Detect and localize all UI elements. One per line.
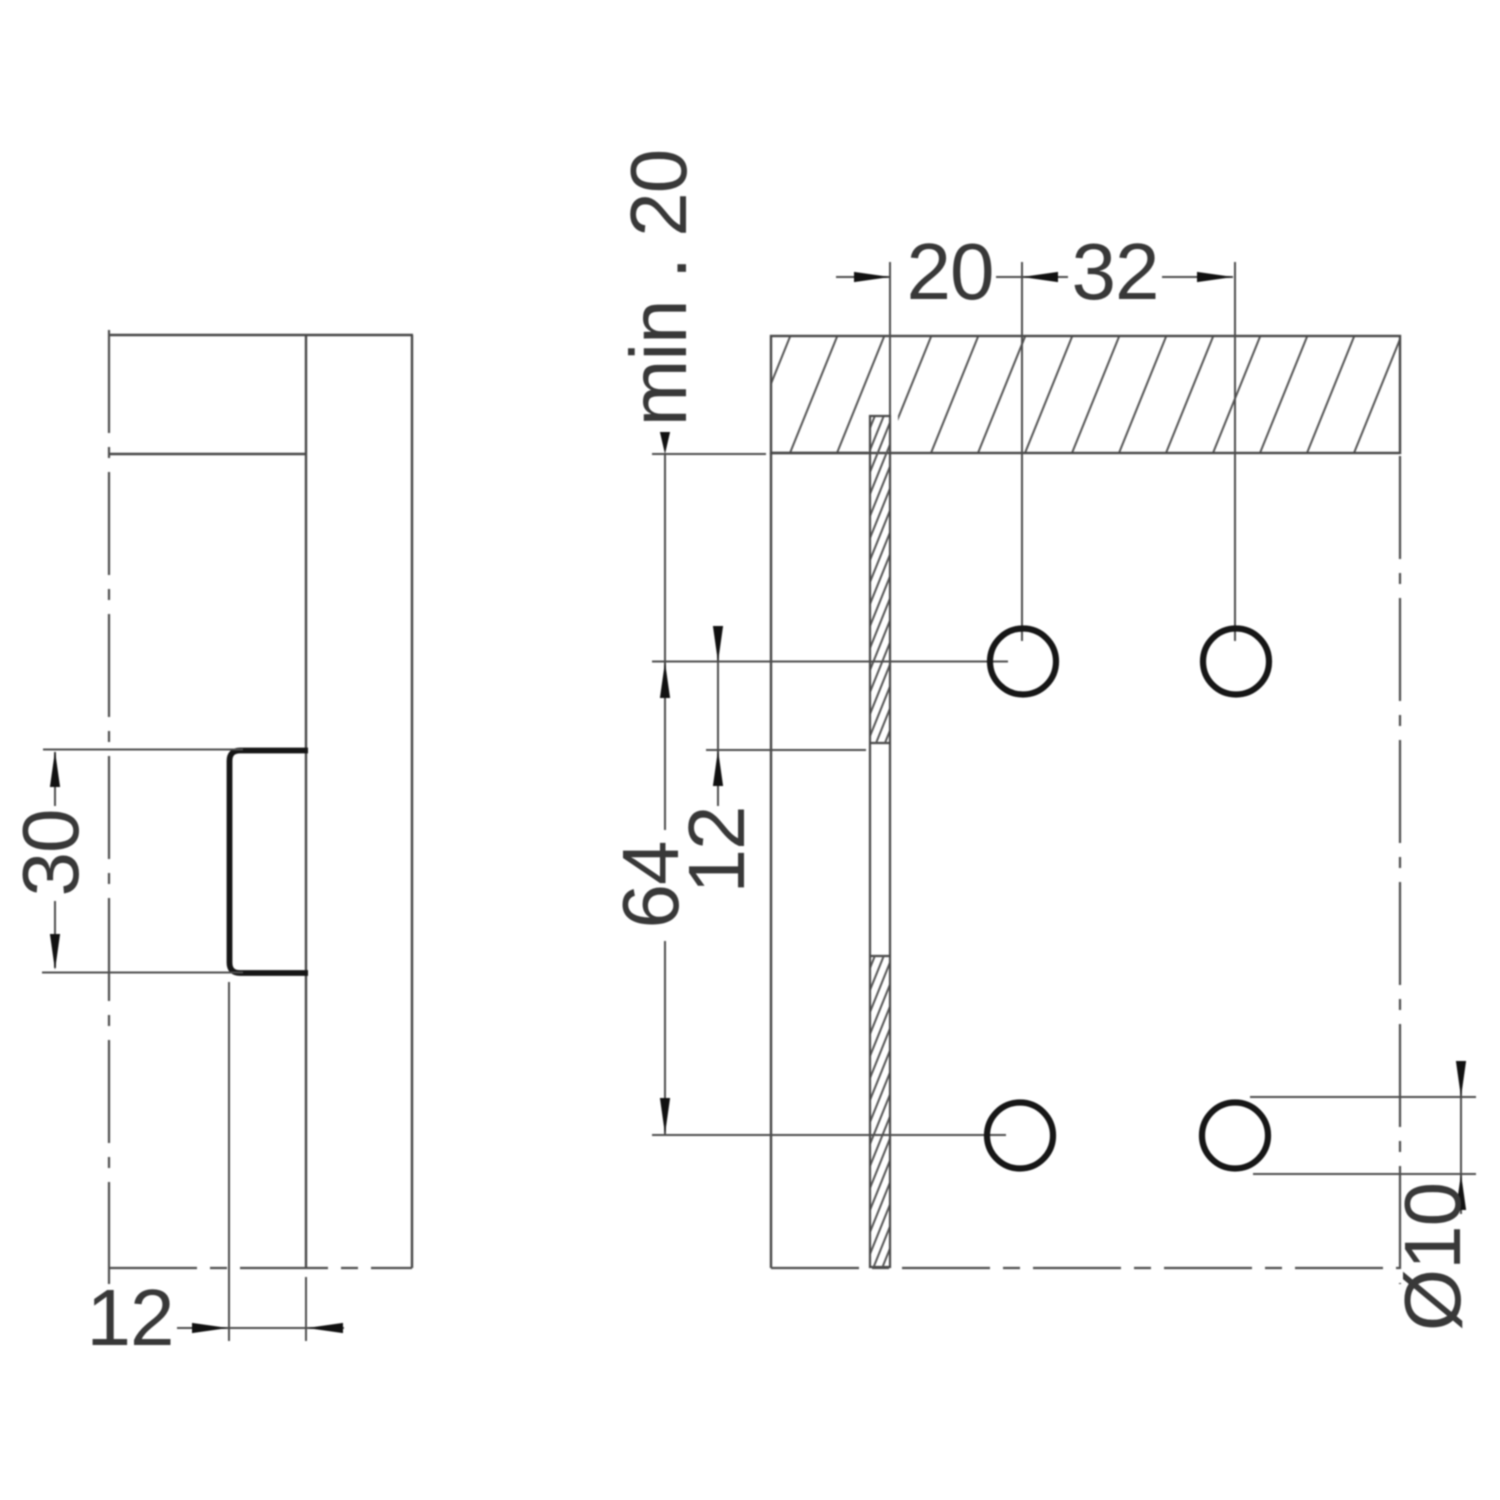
svg-text:20: 20 (907, 227, 994, 316)
svg-text:Ø10: Ø10 (1388, 1183, 1477, 1331)
svg-text:12: 12 (87, 1273, 174, 1362)
svg-text:12: 12 (672, 807, 761, 894)
svg-text:32: 32 (1072, 227, 1159, 316)
svg-text:30: 30 (6, 810, 95, 897)
svg-text:min . 20: min . 20 (614, 150, 703, 427)
